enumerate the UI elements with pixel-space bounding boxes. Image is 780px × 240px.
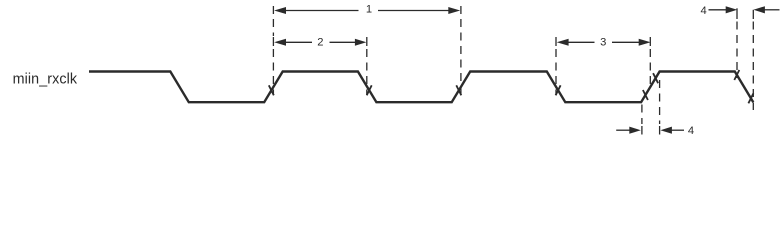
dimension arrow 3 (pulse duration low) <box>557 39 651 46</box>
reference tick on falling edge at node D (x=556) <box>556 85 561 95</box>
svg-text:2: 2 <box>317 36 323 48</box>
dimension arrow 4 (rise time, bottom) <box>616 127 684 134</box>
reference tick high on rising edge 3 <box>653 73 658 83</box>
dimension label 3 <box>600 36 606 48</box>
reference tick high on final falling edge <box>734 70 739 80</box>
dashed guide line I (final fall end, x=753.3) <box>752 10 754 110</box>
dimension arrow 2 (pulse duration high) <box>274 39 366 46</box>
svg-text:4: 4 <box>700 5 706 17</box>
svg-text:1: 1 <box>366 3 372 15</box>
dashed guide line A (rise 1 midpoint, x=273.4) <box>272 6 274 95</box>
reference tick on falling edge at node B (x=367.1) <box>367 85 372 95</box>
signal label miin_rxclk <box>13 71 78 87</box>
dashed guide line G (rise 3 end, x=659.6) <box>659 80 661 135</box>
dimension label 2 <box>317 36 323 48</box>
dashed guide line B (fall 2 midpoint, x=367.1) <box>366 37 368 95</box>
dimension arrow 1 (clock period) <box>274 7 460 14</box>
dashed guide line C (rise 2 midpoint, x=460.9) <box>460 6 462 95</box>
dimension arrow 4 (fall time, top right) <box>709 6 780 13</box>
reference tick on rising edge at node A (x=273.4) <box>269 85 274 95</box>
dimension label 4 (rise time, bottom) <box>688 125 694 137</box>
dimension label 1 <box>366 3 372 15</box>
svg-text:4: 4 <box>688 125 694 136</box>
svg-text:miin_rxclk: miin_rxclk <box>13 71 78 87</box>
reference tick low on rising edge 3 <box>643 90 648 100</box>
dashed guide line D (fall 3 midpoint, x=556) <box>555 37 557 95</box>
svg-text:3: 3 <box>600 36 606 48</box>
dashed guide line F (rise 3 start, x=641.9) <box>641 105 643 135</box>
reference tick on rising edge at node C (x=460.9) <box>456 85 461 95</box>
dimension label 4 (fall time, top right) <box>700 5 706 17</box>
reference tick low on final falling edge <box>748 93 753 103</box>
dashed guide line H (final fall start, x=737) <box>736 8 738 78</box>
dashed guide line E (rise 3 midpoint, x=650.3) <box>649 37 651 86</box>
clock waveform miin_rxclk <box>89 72 753 103</box>
